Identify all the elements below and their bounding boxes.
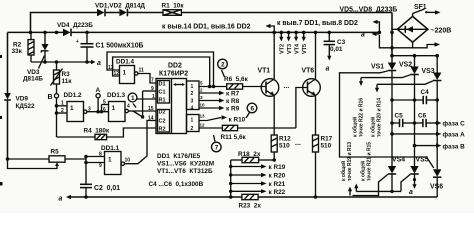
- svg-text:R1: R1: [159, 97, 166, 103]
- thyristor VS4: [348, 134, 396, 196]
- svg-text:В: В: [48, 94, 53, 101]
- svg-text:к R9: к R9: [226, 106, 240, 113]
- svg-text:VD5...VD8 Д233Б: VD5...VD8 Д233Б: [340, 7, 398, 14]
- svg-text:К176ИР2: К176ИР2: [159, 71, 188, 78]
- svg-text:D1: D1: [159, 81, 166, 87]
- svg-text:~220В: ~220В: [431, 27, 452, 34]
- svg-text:1: 1: [191, 84, 194, 90]
- svg-text:к R19: к R19: [269, 164, 286, 171]
- svg-text:VS1...VS6 КУ202М: VS1...VS6 КУ202М: [157, 161, 214, 168]
- resistor R4: [57, 134, 107, 139]
- svg-text:точке R22 и R16: точке R22 и R16: [359, 98, 365, 137]
- wire feedback loop inner: [113, 57, 212, 88]
- svg-text:КД522: КД522: [16, 103, 36, 110]
- node dots on bus: [29, 31, 89, 35]
- gate DD1.1: [105, 152, 131, 175]
- svg-text:15: 15: [148, 106, 154, 112]
- svg-text:к общей: к общей: [370, 117, 377, 137]
- svg-text:R6 5,6к: R6 5,6к: [224, 76, 249, 83]
- svg-text:7: 7: [151, 78, 154, 84]
- svg-text:2: 2: [191, 91, 194, 97]
- svg-text:С4 ...С6 0,1х300В: С4 ...С6 0,1х300В: [149, 181, 204, 188]
- node a arrows near bridge: [361, 20, 381, 39]
- svg-text:D2: D2: [159, 109, 166, 115]
- svg-text:1: 1: [70, 105, 74, 112]
- svg-text:VT3: VT3: [287, 44, 293, 54]
- svg-text:VT5: VT5: [302, 44, 308, 54]
- svg-text:R3: R3: [62, 71, 71, 78]
- svg-text:R18 2х: R18 2х: [238, 151, 261, 158]
- thyristor VS5: [401, 146, 419, 196]
- wire R2 row from R4: [107, 128, 156, 137]
- wire к R9: [199, 103, 240, 113]
- svg-text:к выв.7 DD1, выв.8 DD2: к выв.7 DD1, выв.8 DD2: [277, 20, 358, 27]
- svg-text:фаза А: фаза А: [443, 132, 466, 139]
- gate DD1.4: [120, 66, 145, 84]
- svg-text:к R21: к R21: [269, 181, 286, 188]
- wire DD1.3 out mesh: [128, 91, 156, 119]
- svg-text:VD4 Д223Б: VD4 Д223Б: [57, 22, 93, 29]
- label к общей точке R19 и R13: [340, 142, 353, 181]
- svg-text:С2 0,01: С2 0,01: [94, 185, 120, 192]
- gate DD1.2: [67, 102, 109, 122]
- svg-text:...: ...: [284, 83, 290, 90]
- svg-text:11к: 11к: [62, 78, 73, 85]
- svg-text:к общей: к общей: [352, 117, 359, 137]
- svg-text:R12: R12: [279, 136, 291, 143]
- transistor VT6: [303, 32, 321, 135]
- svg-text:a: a: [409, 189, 413, 196]
- svg-text:к R8: к R8: [226, 98, 240, 105]
- transistor VT1: [261, 32, 279, 135]
- svg-text:к выв.14 DD1, выв.16 DD2: к выв.14 DD1, выв.16 DD2: [162, 24, 251, 31]
- diode VD9: [4, 32, 11, 159]
- svg-text:1: 1: [191, 117, 194, 123]
- svg-text:VT6: VT6: [302, 68, 315, 75]
- svg-text:R1 10к: R1 10к: [162, 3, 185, 10]
- resistor R23: [242, 194, 437, 199]
- svg-text:2: 2: [200, 88, 203, 93]
- svg-text:к общей: к общей: [340, 161, 347, 181]
- symbol bidir arrow: [173, 83, 185, 86]
- label к выв.7 with arrow: [266, 20, 358, 32]
- svg-text:7: 7: [215, 145, 219, 152]
- IC DD2 internal labels: [159, 81, 166, 132]
- svg-text:VD9: VD9: [16, 96, 29, 103]
- wire VT1 base: [265, 87, 267, 89]
- label к общей точке R22 и R16: [352, 98, 365, 137]
- thyristor VS2: [359, 56, 419, 146]
- wire фаза A: [390, 132, 465, 139]
- wire фаза C: [436, 121, 465, 128]
- wire jog to DD1.3 pin5: [100, 99, 109, 113]
- svg-text:5: 5: [103, 99, 106, 105]
- svg-text:С3: С3: [337, 39, 346, 46]
- svg-text:фаза С: фаза С: [443, 121, 466, 128]
- svg-text:a: a: [59, 195, 63, 202]
- svg-text:1: 1: [123, 70, 127, 77]
- svg-text:R2: R2: [159, 126, 166, 132]
- wire к R20: [231, 173, 286, 180]
- resistor R2: [28, 32, 34, 62]
- svg-text:+: +: [76, 39, 79, 45]
- svg-text:6: 6: [103, 107, 106, 113]
- node a arrow right: [87, 60, 101, 67]
- wire B to DD1.2 pins: [55, 101, 67, 115]
- diode VD2: [119, 9, 163, 17]
- pin labels DD2 left: [148, 78, 155, 122]
- svg-text:VS4: VS4: [392, 157, 405, 164]
- svg-text:R4 180к: R4 180к: [84, 128, 110, 135]
- IC DD2 box: [156, 79, 199, 134]
- svg-text:R17: R17: [321, 136, 333, 143]
- svg-text:A: A: [96, 87, 101, 94]
- svg-text:3: 3: [200, 95, 203, 100]
- svg-text:4: 4: [127, 104, 130, 110]
- capacitor C1: [76, 32, 94, 62]
- potentiometer R5: [8, 149, 66, 169]
- svg-text:к R22: к R22: [269, 189, 286, 196]
- svg-text:фаза В: фаза В: [443, 143, 466, 150]
- marker circled 7: [212, 135, 222, 152]
- label parts list: [149, 153, 215, 188]
- gate DD1.3: [109, 102, 131, 122]
- svg-text:6: 6: [251, 106, 255, 113]
- svg-text:С6: С6: [418, 113, 427, 120]
- label к общей точке R21 и R15: [360, 142, 373, 181]
- svg-text:DD1.1: DD1.1: [101, 145, 120, 152]
- collector arrows VT2-VT5: [272, 31, 317, 42]
- marker circled 2: [218, 59, 228, 77]
- svg-text:1: 1: [112, 105, 116, 112]
- zener VD3: [39, 32, 49, 68]
- wire node 1 to R1 input: [137, 98, 156, 100]
- wire main plus bus: [8, 31, 64, 33]
- svg-text:1: 1: [152, 94, 155, 100]
- capacitor C6: [415, 113, 440, 128]
- svg-text:13: 13: [200, 114, 206, 119]
- svg-text:3: 3: [88, 106, 91, 112]
- svg-text:8: 8: [99, 151, 102, 157]
- wire DD1.4 out to pin7: [138, 74, 156, 84]
- wire tap column: [229, 160, 233, 199]
- svg-text:VS2: VS2: [399, 62, 412, 69]
- svg-text:VS6: VS6: [430, 184, 443, 191]
- wire к R21: [231, 181, 286, 188]
- svg-text:5: 5: [200, 81, 203, 86]
- capacitor C3: [324, 31, 335, 73]
- node A terminal: [96, 87, 101, 114]
- svg-text:DD1 К176ЛЕ5: DD1 К176ЛЕ5: [157, 153, 201, 160]
- svg-text:11: 11: [139, 68, 145, 74]
- svg-text:к R7: к R7: [226, 91, 240, 98]
- wire VS4 row join: [354, 184, 401, 194]
- wire к R22: [231, 189, 286, 196]
- svg-text:С1 500мкХ10Б: С1 500мкХ10Б: [96, 43, 144, 50]
- thyristor VS3: [433, 56, 441, 170]
- diode VD1: [97, 9, 119, 17]
- svg-text:к R20: к R20: [269, 173, 286, 180]
- svg-text:VT1: VT1: [258, 68, 271, 75]
- resistor R3 trimmer: [51, 62, 63, 94]
- svg-text:DD1.2: DD1.2: [64, 92, 83, 99]
- switch SF1: [413, 4, 441, 17]
- wire к R7: [199, 88, 240, 98]
- wire feedback loop outer: [107, 52, 215, 88]
- IC DD2 output digits: [191, 84, 194, 132]
- svg-text:VT1...VT6 КТ312Б: VT1...VT6 КТ312Б: [157, 168, 213, 175]
- svg-text:a: a: [97, 60, 101, 67]
- svg-text:9: 9: [151, 86, 154, 92]
- wire top rail: [31, 13, 98, 33]
- wire minus row: [31, 61, 87, 63]
- svg-text:VS5: VS5: [416, 157, 429, 164]
- svg-text:DD2: DD2: [168, 63, 182, 70]
- svg-text:С5: С5: [395, 113, 404, 120]
- capacitor C5: [390, 113, 416, 128]
- svg-text:2: 2: [221, 62, 225, 69]
- svg-text:VT2: VT2: [280, 44, 286, 54]
- svg-text:C2: C2: [159, 119, 166, 125]
- svg-text:12: 12: [114, 71, 120, 77]
- svg-text:Д814Б: Д814Б: [23, 76, 43, 83]
- svg-text:10: 10: [125, 158, 131, 164]
- marker circled 1: [128, 93, 137, 107]
- wire bottom a arrow left: [59, 195, 242, 203]
- svg-text:VD1,VD2 Д814Д: VD1,VD2 Д814Д: [95, 3, 145, 10]
- svg-text:С4: С4: [421, 89, 430, 96]
- svg-text:9: 9: [99, 163, 102, 169]
- svg-text:2: 2: [191, 126, 194, 132]
- svg-text:510: 510: [279, 143, 290, 150]
- svg-text:a: a: [361, 32, 365, 39]
- svg-text:R5: R5: [51, 149, 60, 156]
- svg-text:точке R21 и R15: точке R21 и R15: [367, 142, 373, 181]
- svg-text:...: ...: [295, 140, 301, 147]
- capacitor C2: [80, 184, 92, 199]
- svg-text:10: 10: [200, 103, 206, 108]
- wire bus to bridge column: [390, 13, 397, 56]
- resistor R12: [271, 135, 277, 160]
- svg-text:33к: 33к: [12, 48, 23, 55]
- scan smudges left edge: [0, 55, 3, 186]
- svg-text:R11 5,6к: R11 5,6к: [221, 134, 247, 141]
- svg-text:a: a: [326, 66, 330, 73]
- svg-text:DD1.4: DD1.4: [116, 59, 135, 66]
- wire pin15 D2 row is mesh above; wire pin14 C2 from DD1.1: [125, 121, 157, 164]
- wire к R10: [199, 114, 246, 124]
- labels VT2 VT3 VT4 VT5 vertical: [280, 43, 309, 54]
- svg-text:VT4: VT4: [295, 43, 301, 54]
- wire VS3 gate: [375, 81, 433, 93]
- svg-text:510: 510: [321, 143, 332, 150]
- marker circled 6: [246, 103, 257, 118]
- svg-text:12: 12: [200, 123, 206, 128]
- capacitor C4: [390, 89, 439, 104]
- label к общей точке R20 и R14: [370, 98, 383, 137]
- wire R5 row: [6, 157, 86, 185]
- node B terminal: [48, 94, 59, 137]
- svg-text:точке R20 и R14: точке R20 и R14: [377, 98, 383, 137]
- bridge rectifier VD5-VD8: [397, 16, 428, 42]
- thyristor VS1: [340, 56, 434, 168]
- svg-text:к R10: к R10: [229, 117, 246, 124]
- wire фаза B: [413, 143, 465, 150]
- svg-text:DD1.3: DD1.3: [107, 92, 126, 99]
- resistor R11: [199, 123, 296, 131]
- wire VT6 base riser: [296, 88, 308, 129]
- resistor R18: [231, 157, 276, 162]
- wire DD2 out pin5 row: [199, 81, 227, 87]
- svg-text:VS3: VS3: [422, 68, 435, 75]
- diode VD4: [63, 29, 379, 37]
- svg-text:2: 2: [61, 108, 64, 114]
- wire thyristor anode bus: [390, 54, 439, 58]
- svg-text:3: 3: [191, 99, 194, 105]
- svg-text:SF1: SF1: [414, 4, 427, 11]
- wire к R8: [199, 95, 240, 105]
- svg-text:к общей: к общей: [360, 161, 367, 181]
- resistor R1: [163, 10, 392, 16]
- thyristor VS6: [433, 169, 441, 197]
- svg-text:точке R19 и R13: точке R19 и R13: [347, 142, 353, 181]
- svg-text:0,01: 0,01: [330, 46, 343, 53]
- svg-text:4: 4: [191, 105, 194, 111]
- svg-text:1: 1: [108, 157, 112, 164]
- svg-text:C1: C1: [159, 89, 166, 95]
- svg-text:1: 1: [61, 101, 64, 107]
- svg-text:1: 1: [131, 95, 135, 102]
- pins 8 9 DD1.1: [84, 151, 104, 168]
- resistor R17: [313, 135, 319, 199]
- svg-text:VS1: VS1: [371, 64, 384, 71]
- wire к R19: [231, 164, 286, 171]
- resistor R6: [227, 84, 266, 89]
- wire bridge bottom: [379, 35, 440, 48]
- svg-text:R23 2х: R23 2х: [239, 203, 262, 210]
